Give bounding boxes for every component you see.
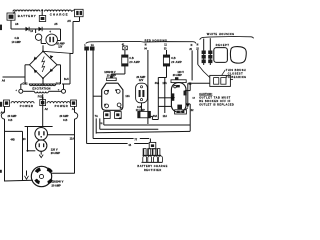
svg-text:10 AMP: 10 AMP: [12, 40, 22, 44]
svg-text:44A: 44A: [155, 82, 160, 85]
svg-text:C.B: C.B: [129, 57, 134, 60]
svg-text:20 AMP: 20 AMP: [173, 74, 182, 77]
svg-text:12V: 12V: [58, 46, 63, 48]
svg-text:B+5: B+5: [64, 78, 69, 81]
svg-text:C.B: C.B: [171, 57, 176, 60]
svg-text:20 AMP: 20 AMP: [51, 151, 61, 155]
svg-text:A5: A5: [67, 19, 71, 23]
svg-text:POWER: POWER: [20, 104, 34, 108]
svg-text:C.B: C.B: [63, 119, 68, 122]
svg-text:WHITE HOUSING: WHITE HOUSING: [207, 32, 235, 36]
svg-text:A6: A6: [15, 22, 19, 26]
svg-text:THIS BRUSH: THIS BRUSH: [226, 69, 246, 72]
svg-text:BE BROKEN OFF IF: BE BROKEN OFF IF: [199, 100, 231, 103]
svg-text:120/240 V: 120/240 V: [52, 180, 64, 184]
svg-text:RECEPT: RECEPT: [216, 44, 230, 47]
svg-text:C.B: C.B: [8, 119, 13, 122]
svg-text:OUTLET IS REPLACED: OUTLET IS REPLACED: [199, 104, 234, 107]
svg-text:10 AMP: 10 AMP: [56, 43, 65, 46]
svg-text:11A: 11A: [163, 115, 168, 118]
svg-text:1A: 1A: [91, 44, 94, 47]
svg-text:11A: 11A: [162, 82, 167, 85]
svg-text:36S: 36S: [56, 82, 61, 85]
svg-text:EXCITATION: EXCITATION: [32, 86, 50, 90]
svg-text:BATTERY CHARGE: BATTERY CHARGE: [137, 164, 167, 168]
svg-text:A5: A5: [54, 22, 58, 26]
svg-text:CHARGE: CHARGE: [50, 12, 69, 16]
svg-text:20 AMP: 20 AMP: [171, 61, 182, 64]
svg-text:11A: 11A: [70, 137, 75, 140]
svg-text:GB2: GB2: [22, 82, 28, 85]
svg-text:20 AMP: 20 AMP: [8, 115, 17, 118]
svg-text:4A: 4A: [119, 117, 122, 120]
svg-text:20 AMP: 20 AMP: [129, 61, 140, 64]
svg-text:RECTIFIER: RECTIFIER: [144, 169, 162, 172]
svg-text:44B: 44B: [11, 139, 16, 142]
svg-text:RED HOUSING: RED HOUSING: [145, 38, 168, 42]
svg-text:POWER: POWER: [55, 104, 69, 108]
svg-text:44A: 44A: [153, 115, 158, 118]
svg-text:7A: 7A: [95, 115, 98, 118]
svg-text:20 AMP: 20 AMP: [60, 115, 69, 118]
svg-text:12V: 12V: [139, 79, 144, 82]
svg-text:BATTERY: BATTERY: [18, 14, 37, 18]
svg-text:OUTLET TAB MUST: OUTLET TAB MUST: [199, 96, 231, 99]
svg-text:12A: 12A: [125, 95, 130, 98]
svg-text:+: +: [49, 30, 51, 34]
svg-text:C.B: C.B: [15, 36, 20, 40]
svg-text:20 AMP: 20 AMP: [52, 184, 62, 188]
svg-text:TO BEARING: TO BEARING: [226, 76, 247, 79]
